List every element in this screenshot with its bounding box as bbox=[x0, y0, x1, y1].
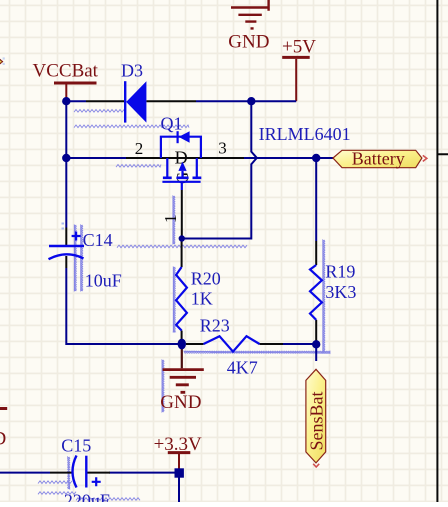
port Battery bbox=[333, 148, 422, 168]
resistor R20 bbox=[176, 239, 221, 341]
svg-text:C14: C14 bbox=[83, 230, 113, 250]
svg-text:Battery: Battery bbox=[352, 148, 405, 168]
junction GND node bbox=[178, 339, 186, 350]
svg-text:R20: R20 bbox=[191, 268, 221, 288]
junction gate wire bbox=[179, 235, 185, 241]
ground GND (bottom) bbox=[160, 348, 204, 413]
svg-text:Q1: Q1 bbox=[161, 113, 183, 133]
junction VCCBat/top wire bbox=[62, 97, 70, 105]
svg-text:VCCBat: VCCBat bbox=[33, 61, 99, 82]
svg-text:GND: GND bbox=[228, 31, 269, 52]
ground GND (top) bbox=[231, 0, 270, 28]
junction pin2 branch bbox=[62, 154, 70, 162]
svg-text:3K3: 3K3 bbox=[325, 282, 356, 302]
svg-text:C15: C15 bbox=[61, 435, 91, 455]
svg-text:R19: R19 bbox=[325, 261, 355, 281]
wire top net VCCBat-D3-+5V bbox=[66, 101, 296, 158]
svg-text:10uF: 10uF bbox=[85, 271, 122, 291]
diode D3 bbox=[86, 60, 196, 122]
svg-text:D3: D3 bbox=[121, 60, 143, 80]
wire GND node to R19 bottom and SensBat bbox=[283, 344, 316, 361]
resistor R23 bbox=[186, 316, 283, 378]
svg-text:+5V: +5V bbox=[282, 37, 316, 58]
junction R19 bottom bbox=[312, 340, 320, 348]
no-ERC marker right of Battery bbox=[423, 155, 427, 161]
svg-text:SensBat: SensBat bbox=[306, 391, 326, 450]
svg-text:1: 1 bbox=[161, 215, 180, 224]
svg-text:2: 2 bbox=[135, 139, 144, 158]
capacitor C14 bbox=[49, 228, 122, 291]
svg-text:D: D bbox=[0, 429, 6, 450]
wire pin-2 net bbox=[66, 157, 126, 159]
wire R19 top bbox=[315, 158, 317, 241]
clipped power bar at left edge bbox=[0, 407, 7, 410]
wire bottom +3.3V net bbox=[0, 473, 179, 502]
clipped port tip at left edge bbox=[0, 59, 3, 65]
wire +5V to gate with connect jog bbox=[182, 101, 257, 238]
capacitor C15 bbox=[50, 435, 110, 507]
svg-text:4K7: 4K7 bbox=[227, 357, 258, 377]
svg-text:3: 3 bbox=[218, 139, 227, 158]
wire C14 net to GND node bbox=[66, 158, 182, 344]
port SensBat bbox=[306, 369, 326, 463]
compile-mask squiggles bbox=[38, 110, 330, 501]
junction battery/R19 bbox=[312, 154, 320, 162]
resistor R19 bbox=[310, 241, 356, 344]
svg-text:R23: R23 bbox=[200, 316, 230, 336]
wire battery net bbox=[243, 157, 333, 159]
no-ERC marker below SensBat bbox=[313, 464, 319, 467]
junction +3.3V node bbox=[175, 468, 184, 477]
svg-text:1K: 1K bbox=[191, 289, 213, 309]
sheet symbol border bbox=[437, 0, 448, 502]
junction +5V tee bbox=[247, 97, 255, 105]
transistor Q1 IRLML6401 bbox=[126, 113, 244, 238]
svg-text:IRLML6401: IRLML6401 bbox=[259, 124, 351, 144]
svg-text:GND: GND bbox=[160, 392, 201, 413]
svg-text:220uF: 220uF bbox=[64, 491, 110, 503]
